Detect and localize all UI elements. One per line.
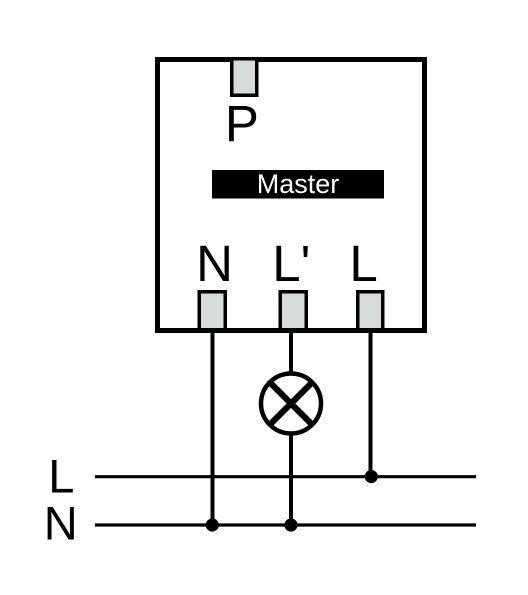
wire L' terminal to lamp — [289, 331, 293, 375]
svg-text:Master: Master — [257, 169, 340, 199]
lamp E1 (circle) — [261, 374, 321, 434]
junction dot N wire / N line — [206, 518, 219, 531]
svg-text:P: P — [225, 95, 259, 152]
junction dot lamp wire / N line — [284, 518, 297, 531]
terminal tab L — [358, 292, 383, 330]
terminal tab P — [232, 59, 257, 96]
junction dot L wire / L line — [365, 470, 378, 483]
terminal tab L' — [280, 292, 306, 330]
wire L terminal to L line — [369, 331, 373, 477]
net N supply line — [95, 523, 476, 526]
lamp E1 cross stroke 1 — [271, 383, 312, 424]
svg-text:N: N — [44, 496, 78, 549]
label plate Master — [212, 170, 384, 199]
terminal tab N — [199, 292, 225, 330]
device box U1 (sensor/master unit) — [158, 60, 425, 331]
svg-text:L: L — [48, 449, 74, 502]
net L supply line — [95, 475, 476, 478]
lamp E1 cross stroke 2 — [271, 383, 312, 424]
svg-text:L: L — [349, 235, 377, 292]
wire lamp to N line — [289, 432, 293, 525]
svg-text:N: N — [196, 235, 233, 292]
svg-text:L': L' — [272, 235, 310, 292]
wire N terminal to N line — [211, 331, 215, 525]
